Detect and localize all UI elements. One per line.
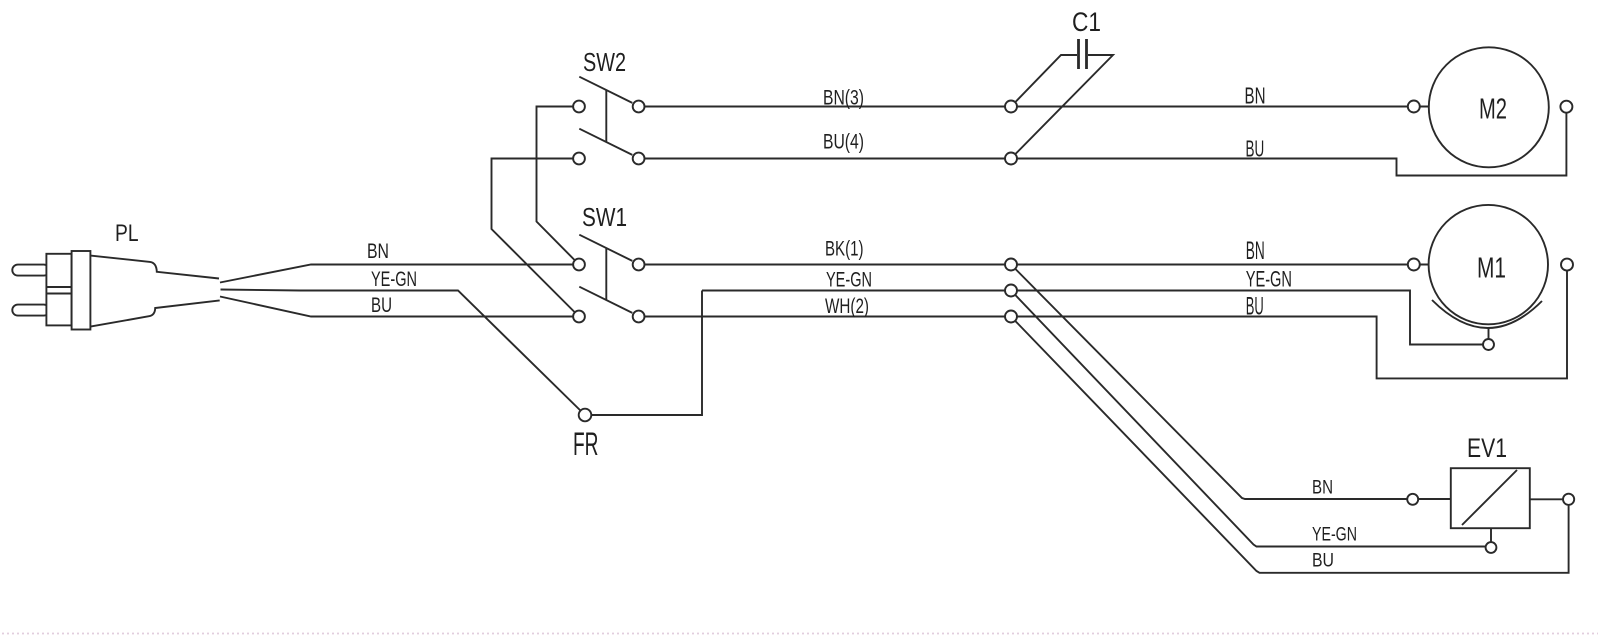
node on WH(2) [1005, 311, 1017, 323]
node M1 right terminal [1561, 259, 1573, 271]
svg-text:EV1: EV1 [1467, 433, 1507, 463]
svg-text:WH(2): WH(2) [825, 295, 869, 318]
svg-text:BN: BN [367, 240, 389, 263]
svg-text:YE-GN: YE-GN [826, 269, 872, 292]
svg-text:BN: BN [1312, 478, 1333, 499]
node M2 right terminal [1560, 101, 1572, 113]
node on YE-GN [1005, 285, 1017, 297]
svg-text:BU(4): BU(4) [823, 131, 864, 154]
svg-text:YE-GN: YE-GN [371, 268, 417, 291]
svg-text:PL: PL [115, 220, 139, 247]
wire C1 right branch [1011, 55, 1113, 159]
motor M1 [1429, 205, 1548, 324]
node M2 left terminal [1408, 101, 1420, 113]
svg-text:YE-GN: YE-GN [1312, 525, 1357, 546]
node FR [579, 409, 592, 422]
node on BU(4) [1005, 153, 1017, 165]
svg-text:BN(3): BN(3) [823, 87, 864, 110]
node EV1 right terminal [1563, 494, 1574, 505]
node M1 left terminal [1408, 259, 1420, 271]
svg-text:SW1: SW1 [582, 202, 627, 232]
svg-text:SW2: SW2 [583, 47, 626, 77]
node EV1 left terminal [1407, 494, 1418, 505]
wire YE-GN mid to M1 frame [702, 291, 1489, 345]
wire SW2 pole2 feed to SW1 [492, 159, 580, 317]
wire BU plug to SW1 [220, 297, 573, 317]
M1 frame terminal tick [1488, 328, 1490, 340]
wire branch to EV1 BN [1011, 265, 1451, 500]
M1 frame arc [1432, 300, 1542, 328]
wire YE-GN plug to FR [221, 290, 586, 416]
capacitor C1 [1079, 39, 1087, 69]
wire FR to YE-GN riser [585, 291, 702, 416]
wire BU(4) SW2 to M2 [645, 113, 1567, 176]
svg-text:YE-GN: YE-GN [1246, 267, 1292, 292]
svg-text:BK(1): BK(1) [825, 238, 864, 261]
svg-text:M1: M1 [1477, 253, 1506, 285]
svg-text:BU: BU [1246, 136, 1265, 162]
svg-text:BN: BN [1246, 237, 1265, 265]
valve EV1 [1451, 468, 1569, 542]
svg-text:FR: FR [573, 426, 599, 462]
svg-text:BU: BU [371, 294, 392, 317]
wire C1 left branch [1011, 55, 1077, 107]
wire BN(3) SW2 to M2 [645, 106, 1429, 108]
svg-text:BN: BN [1245, 83, 1266, 109]
node on BN(3) [1005, 101, 1017, 113]
wire BN plug to SW1 [220, 265, 573, 283]
node M1 frame terminal [1483, 339, 1494, 350]
svg-text:BU: BU [1246, 293, 1264, 321]
node EV1 earth terminal [1486, 542, 1497, 553]
motor M2 [1429, 47, 1549, 167]
wire branch to EV1 YE-GN [1011, 291, 1491, 547]
wire branch to EV1 BU [1011, 317, 1569, 573]
svg-text:M2: M2 [1479, 94, 1507, 126]
plug PL [12, 251, 219, 330]
node on BK(1) [1005, 259, 1017, 271]
wire WH(2) SW1 to M1 [645, 265, 1567, 379]
wire SW2 pole1 feed to SW1 [537, 107, 580, 265]
svg-text:C1: C1 [1072, 7, 1101, 37]
wire BK(1) SW1 to M1 [645, 264, 1428, 266]
svg-text:BU: BU [1312, 551, 1334, 572]
switch SW1 [573, 235, 644, 323]
switch SW2 [573, 77, 644, 165]
